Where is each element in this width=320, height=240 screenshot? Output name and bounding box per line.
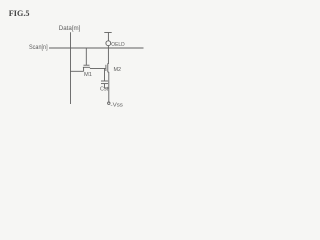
- wire: M2 source rail down to Vss terminal: [108, 72, 110, 102]
- OLED device circle (OELD): [106, 41, 111, 46]
- wire: Data[m] data line (vertical): [69, 32, 71, 104]
- wire: OLED cathode down to M2 drain (crosses scan line): [107, 46, 109, 64]
- capacitor Cst top plate: [101, 80, 108, 82]
- svg-text:Scan[n]: Scan[n]: [29, 44, 48, 51]
- wire: supply rail from T-bar to OLED anode: [107, 33, 109, 41]
- svg-text:Cst: Cst: [100, 86, 109, 92]
- svg-text:M1: M1: [84, 72, 92, 78]
- wire: M2 source lead to rail: [108, 71, 109, 73]
- Vss terminal circle: [108, 102, 110, 104]
- wire: M2 drain lead to rail: [108, 63, 109, 65]
- svg-text:Data[m]: Data[m]: [59, 25, 81, 32]
- svg-text:FIG.5: FIG.5: [9, 9, 30, 18]
- power terminal T-bar (top supply): [104, 32, 111, 34]
- wire: M1 gate lead from scan line: [85, 48, 87, 65]
- wire: Cst bottom plate stub down: [104, 84, 106, 88]
- transistor M1 source stub: [83, 67, 85, 71]
- wire: Scan[n] scan line (horizontal): [49, 47, 144, 49]
- transistor M1 gate bar: [84, 64, 90, 66]
- svg-text:OELD: OELD: [111, 42, 125, 48]
- svg-text:-Vss: -Vss: [111, 102, 124, 108]
- background: [0, 0, 149, 120]
- svg-text:M2: M2: [114, 67, 122, 73]
- transistor M1 channel bar: [83, 66, 90, 68]
- wire: M1 drain to M2 gate (node A): [90, 68, 106, 70]
- wire: node A stub down to Cst top plate: [104, 69, 106, 82]
- transistor M2 gate bar: [105, 65, 107, 71]
- capacitor Cst bottom plate: [101, 83, 108, 85]
- wire: Cst stub to source rail: [105, 87, 109, 89]
- wire: data line to M1 source: [70, 70, 84, 72]
- transistor M2 channel bar: [107, 63, 109, 72]
